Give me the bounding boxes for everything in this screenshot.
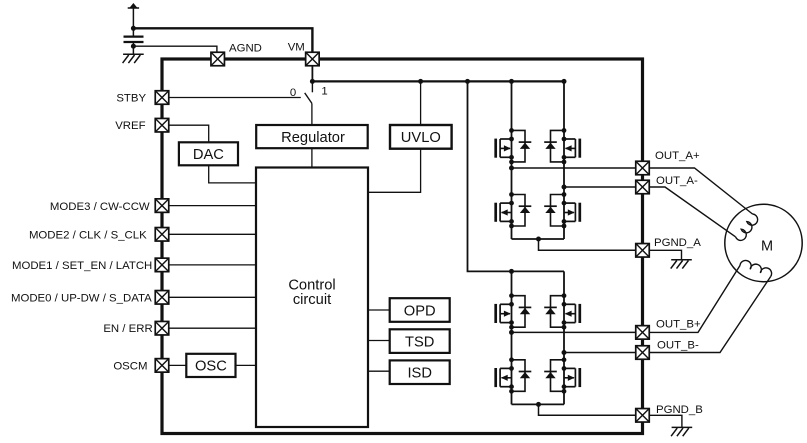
svg-text:AGND: AGND bbox=[229, 43, 262, 55]
wire: bridge B left column bbox=[511, 271, 513, 404]
pin MODE2 bbox=[155, 228, 169, 242]
block OSC bbox=[186, 354, 235, 377]
pin AGND bbox=[211, 52, 225, 66]
wire: UVLO to control circuit bbox=[368, 149, 421, 193]
block UVLO bbox=[390, 125, 452, 149]
capacitor C1 bbox=[124, 37, 144, 42]
wire: EN to control bbox=[169, 327, 256, 329]
wire: to OUT_A+ pin bbox=[512, 167, 636, 169]
transistor Q5 (bridge B high-side left) bbox=[496, 293, 532, 329]
wire: to PGND_B pin bbox=[539, 404, 637, 415]
wire: junction to AGND pin bbox=[133, 46, 217, 52]
pin OUT_A+ bbox=[636, 161, 650, 175]
pin VM bbox=[306, 52, 320, 66]
svg-text:MODE1 / SET_EN / LATCH: MODE1 / SET_EN / LATCH bbox=[12, 260, 152, 272]
wire: OUT_B- to motor coil B bbox=[649, 277, 770, 353]
wire: VM rail to UVLO bbox=[420, 81, 422, 125]
wire: OSC to control bbox=[236, 364, 257, 366]
svg-text:TSD: TSD bbox=[405, 334, 434, 350]
wire: bridge A left column bbox=[511, 81, 513, 239]
node: bridge B PGND tap bbox=[536, 402, 541, 407]
transistor Q2 (bridge A high-side right) bbox=[544, 128, 580, 164]
pin OUT_B+ bbox=[636, 326, 650, 340]
svg-text:MODE3 / CW-CCW: MODE3 / CW-CCW bbox=[50, 201, 150, 213]
wire: bridge B right column bbox=[563, 271, 565, 404]
svg-text:Control: Control bbox=[288, 277, 335, 293]
node: bridge A PGND tap bbox=[536, 237, 541, 242]
pin OSCM bbox=[155, 359, 169, 373]
wire: control to TSD bbox=[368, 340, 390, 342]
block OPD bbox=[390, 298, 450, 322]
wire: regulator to control circuit bbox=[311, 148, 313, 167]
wire: to PGND_A pin bbox=[539, 239, 636, 250]
transistor Q4 (bridge A low-side right) bbox=[544, 192, 580, 228]
node: OUT_B- tap bbox=[562, 350, 567, 355]
svg-text:STBY: STBY bbox=[116, 92, 146, 104]
transistor Q1 (bridge A high-side left) bbox=[496, 128, 532, 164]
wire: to OUT_B+ pin bbox=[512, 331, 637, 333]
transistor Q8 (bridge B low-side right) bbox=[544, 357, 580, 393]
wire: bridge A source rail bbox=[512, 238, 565, 240]
pin EN bbox=[155, 321, 169, 335]
block DAC bbox=[179, 142, 238, 165]
wire: capacitor to ground node bbox=[132, 42, 134, 54]
wire: switch to regulator bbox=[311, 103, 313, 125]
wire: MODE2 to control bbox=[169, 233, 256, 235]
pin STBY bbox=[155, 91, 169, 105]
inductor coil A (motor phase A winding) bbox=[735, 214, 757, 240]
svg-text:DAC: DAC bbox=[193, 147, 224, 163]
wire: bridge B source rail bbox=[512, 403, 565, 405]
transistor Q6 (bridge B high-side right) bbox=[544, 293, 580, 329]
block TSD bbox=[390, 329, 450, 353]
wire: OUT_B+ to motor coil B bbox=[649, 266, 740, 333]
node: OUT_A+ tap bbox=[509, 166, 514, 171]
svg-text:UVLO: UVLO bbox=[401, 130, 441, 146]
svg-text:PGND_A: PGND_A bbox=[654, 237, 701, 249]
svg-text:OPD: OPD bbox=[404, 303, 436, 319]
wire: control to OPD bbox=[368, 309, 390, 311]
inductor coil B (motor phase B winding) bbox=[740, 260, 772, 276]
wire: bridge B supply feed bbox=[468, 81, 565, 271]
svg-text:M: M bbox=[761, 238, 773, 254]
block ISD bbox=[390, 360, 450, 384]
svg-text:PGND_B: PGND_B bbox=[656, 404, 703, 416]
svg-text:OSCM: OSCM bbox=[113, 361, 147, 373]
svg-text:OUT_B-: OUT_B- bbox=[657, 339, 699, 351]
wire: MODE1 to control bbox=[169, 264, 256, 266]
ground (PGND_A) bbox=[671, 260, 692, 269]
svg-text:OUT_A+: OUT_A+ bbox=[655, 150, 700, 162]
svg-text:1: 1 bbox=[321, 86, 327, 98]
wire: STBY to switch contact 0 bbox=[169, 97, 301, 99]
pin MODE3 bbox=[155, 199, 169, 213]
wire: MODE0 to control bbox=[169, 296, 256, 298]
wire: OUT_A- to motor coil A bbox=[649, 187, 735, 237]
node: OUT_A- tap bbox=[562, 185, 567, 190]
ground (PGND_B) bbox=[671, 427, 692, 436]
node: ground junction bbox=[131, 44, 136, 49]
power supply terminal bbox=[128, 3, 139, 8]
wire: supply to junction bbox=[132, 8, 134, 28]
wire: OUT_A+ to motor coil A bbox=[649, 168, 752, 214]
svg-text:OUT_B+: OUT_B+ bbox=[656, 318, 701, 330]
svg-text:OUT_A-: OUT_A- bbox=[656, 175, 698, 187]
wire: VM pin down to switch node bbox=[311, 66, 313, 82]
pin OUT_A- bbox=[636, 180, 650, 194]
wire: DAC to control circuit bbox=[209, 165, 256, 183]
wire: VREF to DAC bbox=[169, 125, 209, 142]
svg-text:circuit: circuit bbox=[293, 292, 331, 308]
motor M bbox=[725, 204, 802, 281]
pin PGND_B bbox=[636, 409, 650, 423]
switch SW1 blade bbox=[305, 93, 312, 104]
IC boundary box bbox=[162, 59, 643, 434]
wire: bridge A right column bbox=[563, 81, 565, 239]
ground (supply) bbox=[123, 54, 144, 63]
wire: VM internal rail bbox=[312, 80, 564, 82]
wire: OSCM to OSC bbox=[169, 364, 187, 366]
pin PGND_A bbox=[636, 244, 650, 257]
node: OUT_B+ tap bbox=[509, 330, 514, 335]
wire: switch contact 1 stub bbox=[311, 81, 313, 92]
pin OUT_B- bbox=[636, 346, 650, 360]
wire: PGND_B to ground bbox=[649, 415, 682, 427]
wire: control to ISD bbox=[368, 370, 390, 372]
svg-text:ISD: ISD bbox=[407, 366, 431, 382]
block Control circuit bbox=[256, 168, 368, 428]
svg-text:MODE0 / UP-DW / S_DATA: MODE0 / UP-DW / S_DATA bbox=[11, 292, 152, 304]
transistor Q7 (bridge B low-side left) bbox=[496, 357, 532, 393]
node: bridge B rail junction bbox=[509, 269, 514, 274]
svg-text:EN / ERR: EN / ERR bbox=[103, 323, 152, 335]
svg-text:Regulator: Regulator bbox=[281, 130, 345, 146]
transistor Q3 (bridge A low-side left) bbox=[496, 192, 532, 228]
wire: to OUT_B- pin bbox=[564, 352, 636, 354]
wire: PGND_A to ground bbox=[649, 250, 681, 259]
wire: top supply rail to VM bbox=[133, 28, 312, 52]
svg-text:OSC: OSC bbox=[195, 359, 227, 375]
block Regulator bbox=[256, 125, 368, 148]
capacitor C1 plate wires bbox=[132, 28, 134, 36]
node: VM rail junctions bbox=[310, 79, 567, 84]
svg-text:VREF: VREF bbox=[115, 120, 145, 132]
pin MODE1 bbox=[155, 258, 169, 272]
wire: MODE3 to control bbox=[169, 205, 256, 207]
svg-text:VM: VM bbox=[288, 42, 305, 54]
pin VREF bbox=[155, 118, 169, 132]
svg-text:MODE2 / CLK / S_CLK: MODE2 / CLK / S_CLK bbox=[29, 229, 147, 241]
wire: to OUT_A- pin bbox=[564, 186, 636, 188]
node: supply junction bbox=[131, 26, 136, 31]
pin MODE0 bbox=[155, 291, 169, 305]
